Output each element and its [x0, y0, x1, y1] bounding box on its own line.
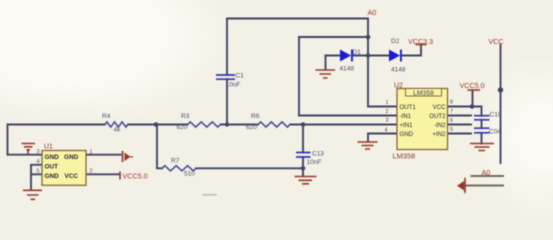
svg-text:OUT1: OUT1	[400, 104, 417, 111]
svg-text:C1: C1	[236, 73, 245, 80]
svg-text:620: 620	[246, 124, 257, 131]
svg-text:VCC: VCC	[433, 104, 446, 111]
svg-text:4148: 4148	[391, 67, 406, 74]
svg-text:VCC: VCC	[65, 173, 79, 180]
svg-text:10nF: 10nF	[226, 82, 241, 89]
svg-text:510: 510	[184, 171, 195, 178]
svg-text:4k: 4k	[114, 127, 122, 134]
svg-text:6: 6	[450, 118, 453, 124]
svg-text:+IN1: +IN1	[400, 122, 414, 129]
svg-text:R6: R6	[251, 113, 260, 120]
svg-text:4148: 4148	[340, 66, 355, 73]
svg-text:D1: D1	[353, 49, 362, 56]
svg-text:1: 1	[90, 150, 93, 156]
svg-text:VCC3.3: VCC3.3	[408, 37, 433, 46]
svg-text:620: 620	[177, 124, 188, 131]
svg-text:A0: A0	[482, 168, 491, 177]
svg-text:5: 5	[37, 169, 40, 175]
svg-text:-IN1: -IN1	[400, 113, 412, 120]
svg-text:GND: GND	[400, 131, 414, 138]
svg-text:2: 2	[386, 109, 389, 115]
svg-text:10nF: 10nF	[307, 159, 322, 166]
svg-text:R4: R4	[102, 113, 111, 120]
svg-text:U1: U1	[44, 144, 53, 151]
svg-text:OUT2: OUT2	[429, 113, 446, 120]
svg-text:VCC5.0: VCC5.0	[460, 81, 485, 90]
svg-text:8: 8	[450, 100, 453, 106]
svg-text:5: 5	[450, 127, 453, 133]
svg-text:4: 4	[385, 128, 388, 134]
svg-text:7: 7	[450, 109, 453, 115]
svg-text:LM358: LM358	[413, 90, 434, 97]
svg-text:3: 3	[386, 118, 389, 124]
svg-text:3: 3	[37, 149, 40, 155]
svg-text:R3: R3	[181, 113, 190, 120]
svg-text:C10: C10	[490, 112, 502, 119]
svg-text:OUT: OUT	[45, 164, 59, 171]
svg-text:+IN2: +IN2	[432, 131, 446, 138]
svg-text:VCC5.0: VCC5.0	[123, 172, 148, 181]
svg-text:GND: GND	[64, 154, 79, 161]
svg-text:R7: R7	[171, 158, 180, 165]
svg-text:2: 2	[90, 169, 93, 175]
svg-text:A0: A0	[368, 8, 377, 17]
svg-text:LM358: LM358	[393, 152, 416, 161]
svg-text:GND: GND	[45, 173, 60, 180]
svg-text:GND: GND	[45, 154, 60, 161]
svg-text:C13: C13	[312, 151, 324, 158]
svg-text:U2: U2	[394, 83, 403, 90]
svg-text:D2: D2	[391, 38, 400, 45]
svg-text:1: 1	[386, 100, 389, 106]
svg-text:-IN2: -IN2	[434, 122, 446, 129]
svg-text:4: 4	[37, 159, 40, 165]
svg-text:C04: C04	[489, 129, 501, 136]
svg-text:VCC: VCC	[488, 37, 503, 46]
